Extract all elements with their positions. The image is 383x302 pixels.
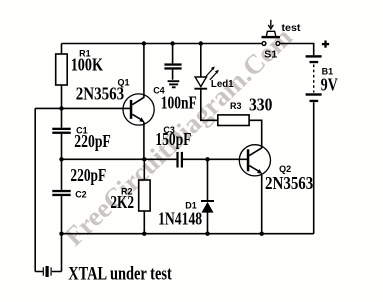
ground symbol under C4 bbox=[168, 81, 180, 87]
svg-text:Led1: Led1 bbox=[211, 79, 234, 90]
svg-text:C2: C2 bbox=[75, 190, 87, 200]
junction LED / top rail bbox=[199, 41, 203, 45]
wire D1 cathode lead bbox=[207, 159, 209, 201]
junction Q2 emitter / bottom rail bbox=[260, 232, 264, 236]
junction C3 / D1 / Q2 base bbox=[205, 157, 209, 161]
crystal XTAL under test bbox=[43, 266, 51, 277]
wire middle rail left of C3 bbox=[62, 158, 177, 160]
junction R1 bottom / Q1 base bbox=[59, 106, 63, 110]
wire C2 bottom through bottom rail junction to crystal right lead bbox=[61, 196, 63, 271]
wire top rail from S1 right contact to battery plus bbox=[280, 44, 314, 56]
wire C4 branch from top rail to ground bbox=[172, 44, 174, 80]
capacitor C3 bbox=[176, 152, 183, 168]
diode D1 (1N4148, cathode up) bbox=[201, 201, 214, 213]
transistor Q2 (NPN 2N3563) bbox=[239, 145, 270, 176]
wire D1 anode lead bbox=[207, 213, 209, 234]
svg-text:2N3563: 2N3563 bbox=[76, 84, 124, 104]
wire far left rail down to crystal left lead bbox=[34, 108, 36, 271]
junction Q1 collector / top rail bbox=[142, 41, 146, 45]
wire R2 bottom lead bbox=[143, 211, 145, 234]
resistor R1 bbox=[56, 54, 67, 85]
svg-text:9V: 9V bbox=[321, 74, 338, 94]
wire middle rail right of C3 to Q2 base bbox=[183, 158, 248, 160]
switch S1 (push button with press arrow) bbox=[262, 20, 280, 46]
battery dashed middle cells bbox=[313, 65, 315, 93]
wire crystal leads bbox=[35, 271, 61, 273]
svg-text:150pF: 150pF bbox=[155, 129, 191, 149]
junction C1-C2 / middle rail bbox=[59, 157, 63, 161]
wire R2 top lead bbox=[143, 159, 145, 180]
battery plus sign bbox=[322, 41, 329, 48]
svg-text:2K2: 2K2 bbox=[110, 192, 134, 212]
svg-text:100nF: 100nF bbox=[161, 93, 197, 113]
junction Q1 emitter / R2 top bbox=[142, 157, 146, 161]
svg-text:test: test bbox=[282, 23, 302, 34]
wire Q1 base bbox=[35, 107, 131, 109]
wire main rail top corner to R1 top bbox=[61, 44, 63, 55]
watermark FreeCircuitDiagram.Com bbox=[58, 21, 298, 251]
wire C1 bottom to C2 top bbox=[61, 134, 63, 190]
svg-text:XTAL under test: XTAL under test bbox=[68, 263, 172, 284]
svg-text:S1: S1 bbox=[264, 49, 277, 61]
wire bottom rail (ground net) bbox=[62, 233, 314, 235]
battery B1 (9V multi-cell) bbox=[306, 55, 322, 102]
svg-text:R3: R3 bbox=[230, 101, 242, 111]
svg-text:220pF: 220pF bbox=[74, 131, 111, 151]
capacitor C4 bbox=[164, 63, 181, 69]
wire R1 bottom through base junction to C1 top bbox=[61, 85, 63, 128]
capacitor C1 bbox=[52, 128, 70, 134]
wire Q2 emitter to bottom rail bbox=[261, 174, 263, 234]
svg-text:2N3563: 2N3563 bbox=[265, 173, 313, 193]
junction D1 anode / bottom rail bbox=[205, 232, 209, 236]
LED Led1 (pointing down, with light arrows) bbox=[194, 66, 219, 88]
wire Q1 emitter down to middle rail bbox=[143, 122, 145, 159]
svg-text:220pF: 220pF bbox=[70, 165, 106, 185]
wire Q1 collector to top rail bbox=[143, 44, 145, 98]
resistor R3 bbox=[218, 115, 249, 126]
svg-text:330: 330 bbox=[249, 95, 272, 115]
wire top rail (V+ net) from R1 top to S1 left contact bbox=[62, 43, 262, 45]
junction C4 / top rail bbox=[170, 41, 174, 45]
wire battery negative down to bottom rail bbox=[313, 102, 315, 234]
wire R3 right lead to Q2 collector bbox=[249, 120, 262, 148]
svg-text:1N4148: 1N4148 bbox=[158, 208, 202, 228]
wire LED branch from top rail and down to R3 left lead bbox=[201, 44, 218, 121]
transistor Q1 (NPN 2N3563) bbox=[123, 94, 154, 125]
svg-text:100K: 100K bbox=[71, 54, 103, 74]
junction R2 bottom / bottom rail bbox=[142, 232, 146, 236]
junction main rail / bottom rail bbox=[59, 232, 63, 236]
resistor R2 bbox=[139, 180, 150, 211]
capacitor C2 bbox=[52, 190, 70, 196]
